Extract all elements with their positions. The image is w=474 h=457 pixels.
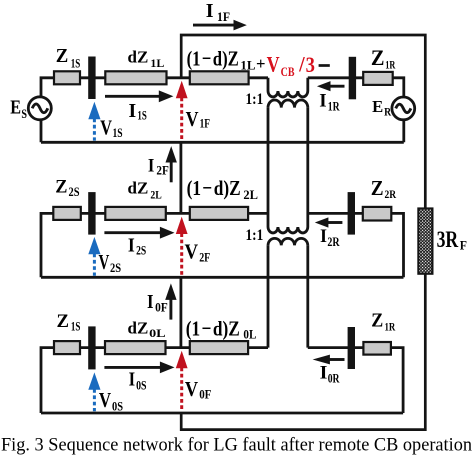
label I1R <box>319 90 340 113</box>
source ER <box>392 97 415 120</box>
label Z2S <box>55 178 79 199</box>
label I1S <box>129 100 147 122</box>
svg-text:Z: Z <box>371 310 383 331</box>
svg-text:1S: 1S <box>71 320 81 334</box>
CB bar row2 left <box>88 192 95 235</box>
voltage arrow V1F <box>176 81 188 141</box>
label I2F <box>148 155 169 177</box>
svg-text:R: R <box>384 105 391 119</box>
svg-text:0S: 0S <box>136 379 146 393</box>
svg-text:I: I <box>206 0 214 22</box>
svg-text:1S: 1S <box>113 126 123 140</box>
label Z2R <box>371 176 397 201</box>
label ER <box>372 97 391 119</box>
label V0S <box>99 388 123 413</box>
source ES <box>28 97 51 120</box>
svg-text:2L: 2L <box>243 188 258 202</box>
svg-text:1L: 1L <box>150 56 164 70</box>
svg-text:2S: 2S <box>69 185 80 199</box>
resistor dZ1L <box>105 71 166 84</box>
label I0F <box>147 291 168 314</box>
svg-text:dZ: dZ <box>128 318 149 337</box>
resistor Z1R row3 <box>363 342 391 355</box>
CB bar row1 right <box>349 57 356 100</box>
svg-text:0L: 0L <box>149 326 166 340</box>
svg-text:1R: 1R <box>385 320 396 334</box>
svg-text:2R: 2R <box>327 235 340 249</box>
svg-text:V: V <box>100 115 112 139</box>
label dZ1L <box>128 48 165 70</box>
resistor Z1R row1 <box>363 72 393 85</box>
svg-text:2L: 2L <box>150 188 161 202</box>
svg-text:3: 3 <box>306 52 315 77</box>
label V2S <box>99 250 122 275</box>
voltage arrow V0F <box>176 351 188 411</box>
svg-text:I: I <box>129 369 136 391</box>
label ES <box>10 97 27 121</box>
svg-text:(1 − d)Z: (1 − d)Z <box>186 316 240 340</box>
svg-text:V: V <box>99 388 111 412</box>
wire outer fault loop <box>181 35 425 430</box>
voltage arrow V2S <box>88 237 100 276</box>
wire rail3 <box>41 412 403 415</box>
svg-text:Z: Z <box>55 178 67 198</box>
svg-text:V: V <box>186 107 199 131</box>
transformer T2 <box>268 227 308 245</box>
svg-text:E: E <box>372 97 383 116</box>
label (1-d)Z2L <box>187 176 258 202</box>
voltage arrow V2F <box>176 217 188 276</box>
current arrow I0S <box>104 362 174 374</box>
svg-text:I: I <box>319 90 326 111</box>
label V0F <box>185 377 212 401</box>
wire row3 left <box>41 348 268 413</box>
CB bar row2 right <box>348 192 355 235</box>
label Z1S row3 <box>57 311 81 333</box>
resistor dZ0L <box>105 341 166 354</box>
svg-text:Z: Z <box>371 45 385 70</box>
current arrow I1F <box>193 20 247 31</box>
svg-text:dZ: dZ <box>128 48 149 67</box>
svg-text:1R: 1R <box>385 57 395 71</box>
svg-text:3R: 3R <box>437 227 459 252</box>
svg-text:0S: 0S <box>112 400 123 414</box>
svg-text:(1 − d)Z: (1 − d)Z <box>187 46 239 70</box>
wire rail2 <box>41 276 404 279</box>
wire node F1 to F2 <box>179 142 182 213</box>
label VCB/3 <box>256 52 330 80</box>
svg-text:0F: 0F <box>155 301 168 315</box>
label Z1S row1 <box>56 45 81 70</box>
svg-text:0F: 0F <box>199 387 212 401</box>
current arrow I0F <box>165 283 176 319</box>
svg-text:1R: 1R <box>328 100 341 114</box>
label 1:1 T2 <box>246 227 264 244</box>
label (1-d)Z1L <box>187 46 256 72</box>
current arrow I1R <box>317 81 345 91</box>
resistor Z1S <box>54 71 80 84</box>
svg-text:(1 − d)Z: (1 − d)Z <box>187 176 241 200</box>
svg-text:0L: 0L <box>243 328 256 342</box>
svg-text:I: I <box>320 226 327 247</box>
svg-text:0R: 0R <box>328 372 341 386</box>
svg-text:V: V <box>267 52 280 77</box>
wire row2 right <box>308 213 404 277</box>
label I1F <box>206 0 231 24</box>
label 1:1 T1 <box>246 91 264 108</box>
label Z1R row1 <box>371 45 396 71</box>
wire node F2 to F0 <box>179 277 182 347</box>
resistor (1-d)Z1L <box>190 71 249 84</box>
current arrow I2S <box>104 227 174 239</box>
CB bar row3 right <box>348 327 355 369</box>
wire row3 right <box>308 348 403 413</box>
svg-text:1:1: 1:1 <box>246 91 264 108</box>
voltage arrow V0S <box>88 372 100 411</box>
svg-text:F: F <box>460 239 468 253</box>
CB bar row1 left <box>88 57 95 100</box>
label V1S <box>100 115 123 140</box>
svg-text:V: V <box>99 250 110 274</box>
svg-text:+: + <box>256 54 266 73</box>
svg-text:I: I <box>320 362 328 383</box>
resistor dZ2L <box>105 207 166 220</box>
svg-text:/: / <box>298 52 305 77</box>
resistor Z2R <box>363 207 392 221</box>
wire row1 right <box>308 78 404 143</box>
label I2S <box>128 234 146 257</box>
resistor Z1S row3 <box>54 341 80 354</box>
svg-text:2S: 2S <box>110 261 121 275</box>
CB bar row3 left <box>88 326 95 369</box>
label dZ2L <box>128 178 162 201</box>
current arrow I1S <box>105 90 173 102</box>
label I0S <box>129 369 147 393</box>
current arrow I2F <box>166 146 177 182</box>
svg-text:Fig. 3 Sequence network for LG: Fig. 3 Sequence network for LG fault aft… <box>1 436 472 456</box>
svg-text:2F: 2F <box>156 164 169 178</box>
svg-text:1:1: 1:1 <box>246 227 264 244</box>
svg-text:1F: 1F <box>217 10 230 24</box>
voltage arrow V1S <box>88 102 100 141</box>
svg-text:dZ: dZ <box>128 178 149 197</box>
svg-text:Z: Z <box>371 176 384 200</box>
label dZ0L <box>128 318 166 340</box>
label I2R <box>320 226 340 249</box>
label 3RF <box>437 227 468 253</box>
label V1F <box>186 107 211 131</box>
label (1-d)Z0L <box>186 316 257 341</box>
svg-text:2S: 2S <box>136 243 146 257</box>
svg-text:1F: 1F <box>200 116 211 130</box>
svg-text:1L: 1L <box>240 59 255 73</box>
svg-text:2R: 2R <box>385 187 397 201</box>
svg-text:S: S <box>21 106 27 121</box>
wire rail1 <box>41 141 404 144</box>
svg-text:V: V <box>185 239 199 263</box>
label Z1R row3 <box>371 310 395 333</box>
resistor (1-d)Z0L <box>190 341 248 354</box>
wire T1 secondary to T2 primary <box>268 108 308 227</box>
wire row1 left <box>41 78 268 143</box>
svg-text:2F: 2F <box>199 251 210 265</box>
svg-text:Z: Z <box>57 311 70 332</box>
wire T2 secondary down to row3 <box>268 245 308 347</box>
svg-text:1S: 1S <box>71 56 81 70</box>
wire row2 left <box>41 213 268 277</box>
current arrow I2R <box>315 217 343 227</box>
transformer T1 <box>268 78 308 108</box>
svg-text:CB: CB <box>281 65 295 79</box>
svg-text:I: I <box>147 291 154 313</box>
fault resistor 3RF <box>418 208 432 273</box>
svg-text:1S: 1S <box>137 108 146 122</box>
resistor (1-d)Z2L <box>190 207 248 220</box>
svg-text:I: I <box>128 234 135 256</box>
label I0R <box>320 362 341 385</box>
svg-text:Z: Z <box>56 45 68 67</box>
svg-text:E: E <box>10 97 21 119</box>
svg-text:V: V <box>185 377 199 401</box>
label V2F <box>185 239 211 264</box>
svg-text:I: I <box>129 100 137 122</box>
svg-text:I: I <box>148 155 155 176</box>
current arrow I0R <box>313 355 345 365</box>
resistor Z2S <box>53 207 81 220</box>
